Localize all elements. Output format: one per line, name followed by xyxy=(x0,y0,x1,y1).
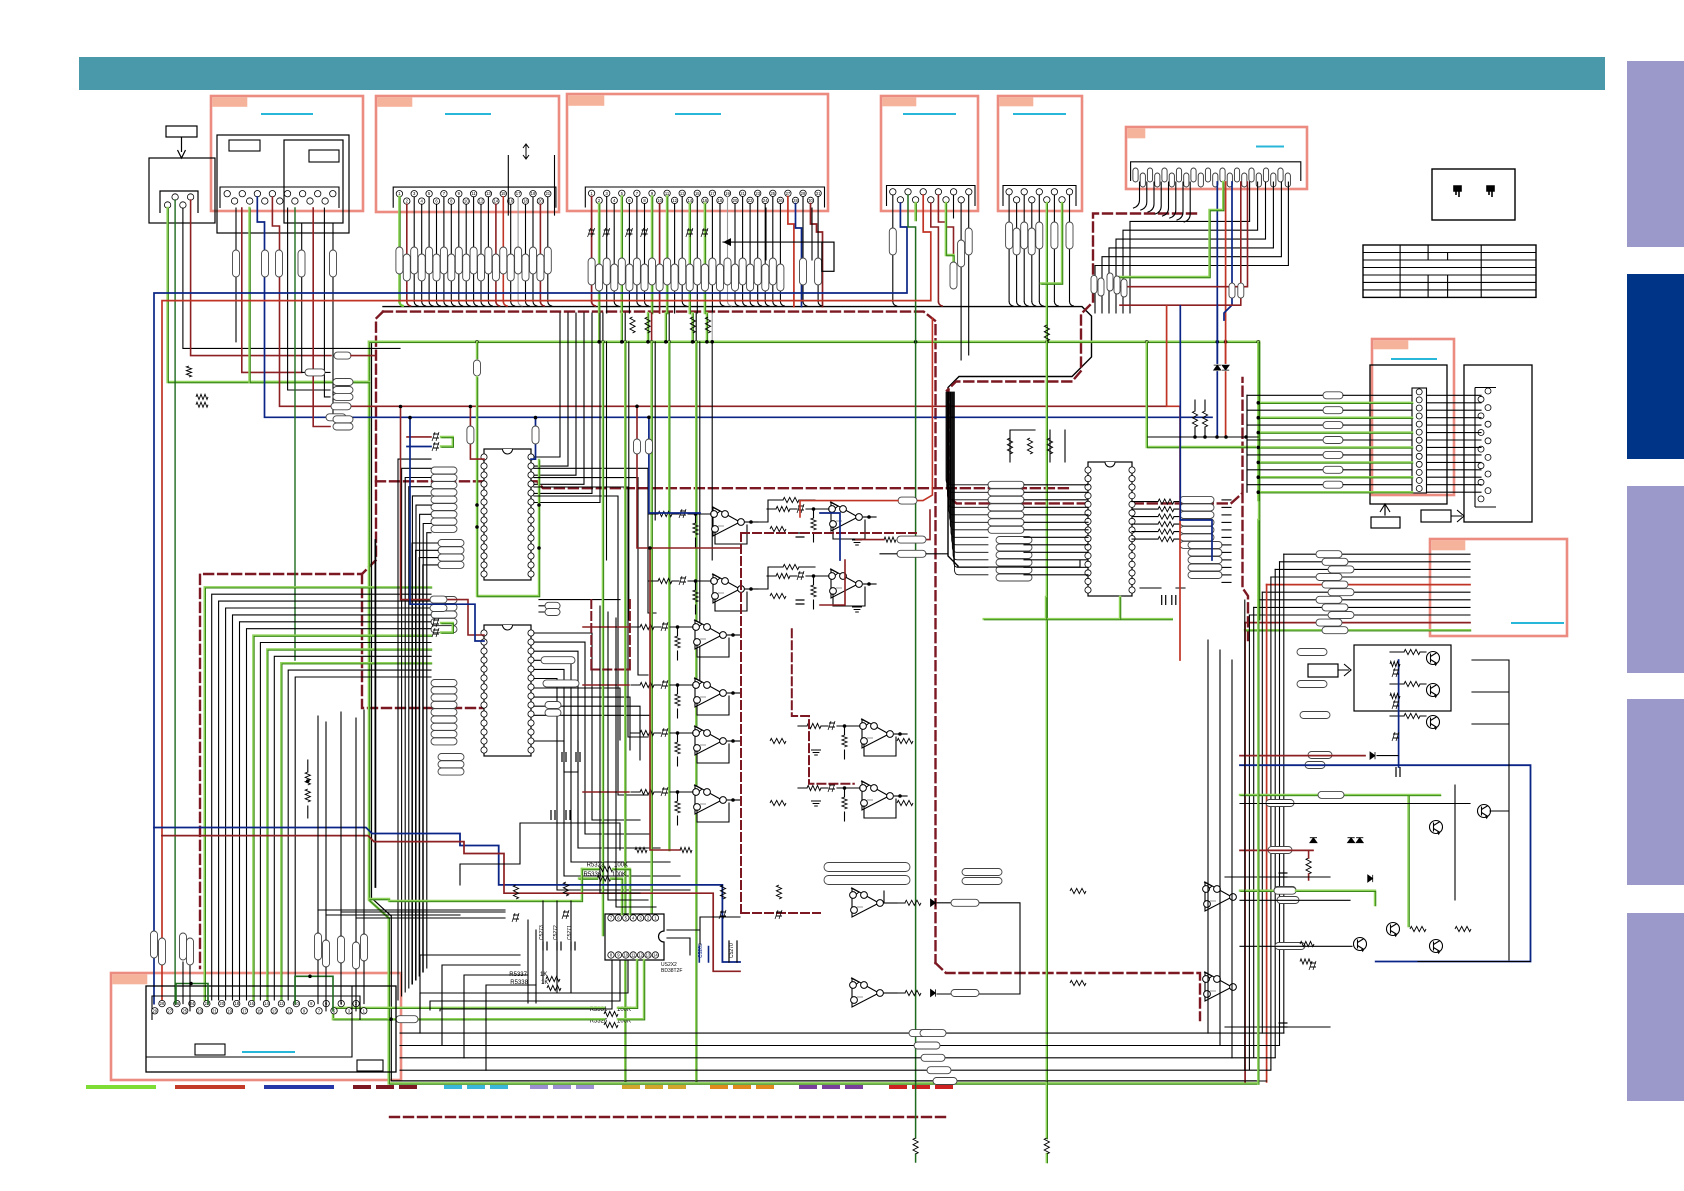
op-amp outputs xyxy=(728,517,908,993)
LCD pin column rect xyxy=(1412,388,1427,493)
svg-text:1K: 1K xyxy=(540,972,547,978)
CN6 bracket xyxy=(1131,162,1301,181)
CN6 pin pills xyxy=(1133,168,1290,187)
crimson row to dashed col xyxy=(856,510,930,543)
CN2 pins xyxy=(396,191,551,205)
svg-text:17: 17 xyxy=(710,191,715,196)
LCD black box xyxy=(1370,365,1447,504)
board entry resistors xyxy=(305,369,353,430)
black row under IC3 xyxy=(957,560,1080,567)
bottom wire resistors2 xyxy=(914,1030,946,1049)
IC5 wires right xyxy=(667,917,740,955)
mid filler verticals xyxy=(600,606,656,907)
inter resistors xyxy=(770,526,913,805)
LCD right box xyxy=(1464,365,1532,522)
svg-text:16: 16 xyxy=(249,1001,254,1006)
CN9 left verticals xyxy=(175,955,190,1011)
updown arrow symbol xyxy=(523,144,529,159)
CN4 pins xyxy=(890,189,972,203)
IC3 right wire stubs xyxy=(1222,500,1231,583)
CN9 left resistors xyxy=(151,931,194,965)
IC5 opamp feed res xyxy=(962,869,1086,986)
LCD gnd symbol xyxy=(1371,504,1400,528)
resistor array RA2 xyxy=(431,597,464,776)
IC decoupling caps xyxy=(534,741,580,772)
wire AC green xyxy=(168,208,370,383)
power connector pins xyxy=(164,194,193,208)
CN6 navy wire3 xyxy=(1224,182,1232,320)
amp navy details xyxy=(1390,660,1400,767)
svg-text:24: 24 xyxy=(763,198,768,203)
board edge green left xyxy=(369,342,1259,1084)
connector box CN7 (display) xyxy=(1372,339,1454,495)
svg-text:17: 17 xyxy=(516,191,521,196)
navy feed opamp xyxy=(645,416,840,561)
navy branch to IC1 xyxy=(531,416,539,459)
resistor array RA1 xyxy=(431,467,464,568)
CN5 green pulldown xyxy=(1044,325,1049,341)
amp zigzags right xyxy=(1300,926,1471,946)
spec table xyxy=(1363,245,1536,297)
svg-text:27: 27 xyxy=(167,1008,172,1013)
CN5 wire bundle xyxy=(1009,195,1074,1163)
connector box CN2 (keys L) xyxy=(376,96,559,212)
svg-text:19: 19 xyxy=(227,1008,232,1013)
op-amp array xyxy=(693,502,894,1007)
CN6 right black staircase xyxy=(1095,182,1288,313)
svg-text:BD38T2F: BD38T2F xyxy=(661,968,682,974)
CN5 bracket xyxy=(1003,186,1076,207)
IC5 fb caps xyxy=(1225,873,1330,1027)
IC3 green under xyxy=(984,597,1173,620)
crimson feed opamp xyxy=(634,405,846,851)
svg-text:31: 31 xyxy=(816,191,821,196)
LCD right bracket xyxy=(1475,388,1496,508)
svg-text:R5323: R5323 xyxy=(587,863,605,869)
svg-text:14: 14 xyxy=(264,1001,269,1006)
crimson branch to IC1 xyxy=(467,405,484,459)
svg-text:15: 15 xyxy=(695,191,700,196)
svg-text:C5273: C5273 xyxy=(539,925,545,940)
IC3 right zigzags xyxy=(1132,499,1180,542)
board edge black left xyxy=(372,342,1257,1081)
CN9 mid verticals xyxy=(318,710,364,1011)
IC5 hookup verticals xyxy=(528,901,571,1003)
amp crimson2 xyxy=(1240,850,1313,880)
CN3 wires into middle xyxy=(603,342,712,1082)
svg-text:13: 13 xyxy=(272,1008,277,1013)
CN9 outer box xyxy=(146,986,396,1072)
opamp interconnect row1 xyxy=(745,497,815,589)
svg-text:10: 10 xyxy=(623,953,628,958)
keybed label 1 xyxy=(229,140,260,151)
CN6 red wire xyxy=(1225,182,1227,363)
CN6 navy wire xyxy=(1216,182,1218,363)
right bus green xyxy=(1257,520,1260,1084)
IC1 right long nets xyxy=(534,468,656,795)
IC2 bottom caps xyxy=(551,810,570,820)
IC1 green U bus xyxy=(474,342,541,597)
CN3 resistor band xyxy=(588,258,822,291)
amp navy bus xyxy=(1240,765,1531,970)
CN6 left wires to shield xyxy=(1134,182,1191,222)
svg-text:23: 23 xyxy=(197,1008,202,1013)
resistor labels xyxy=(509,863,631,1025)
IC5 green wires2 xyxy=(333,960,645,1020)
nav tab 2 (active) xyxy=(1627,274,1684,459)
CN3 wire bundle xyxy=(592,197,823,314)
svg-text:13: 13 xyxy=(680,191,685,196)
diode pair near CN6 xyxy=(1214,305,1230,437)
CN6 wire resistors xyxy=(1229,283,1244,298)
connector box CN4 xyxy=(881,96,978,211)
feeder black bus xyxy=(374,540,376,887)
pedal plug icons xyxy=(1454,186,1494,197)
teal header bar xyxy=(79,57,1605,90)
red vertical right xyxy=(1167,306,1180,660)
CN1 pins xyxy=(224,191,336,205)
series resistor pair left xyxy=(305,760,310,818)
svg-text:14: 14 xyxy=(653,953,658,958)
svg-text:19: 19 xyxy=(531,191,536,196)
connector box CN8 (jacks) xyxy=(1430,539,1567,636)
resistor array RA3 xyxy=(988,481,1032,581)
power unit box xyxy=(149,158,215,223)
CN1 bracket xyxy=(220,187,339,208)
nav tab 5 xyxy=(1627,913,1684,1101)
CN4 bracket xyxy=(887,186,976,207)
power connector bracket xyxy=(160,191,198,213)
board inner notch dashed xyxy=(362,574,530,708)
CN3 pins xyxy=(588,190,821,203)
svg-text:1K: 1K xyxy=(541,980,548,986)
connector box CN3 (keys R) xyxy=(567,94,828,211)
stair to IC5 xyxy=(318,910,505,918)
CN3 tail lines xyxy=(766,208,812,260)
CN9 aux box xyxy=(357,1060,383,1071)
IC5 mid res xyxy=(824,863,910,885)
CN1 wire bundle xyxy=(236,197,1212,660)
svg-text:C5272: C5272 xyxy=(553,925,559,940)
board top green bus xyxy=(369,342,1260,620)
amp diodes xyxy=(1310,838,1373,882)
IC U1 xyxy=(481,449,534,580)
pedal symbol box xyxy=(1432,169,1515,220)
IC3 caps below xyxy=(1140,588,1185,605)
IC1 left rows to bottom connector xyxy=(398,459,438,1000)
left small zigzags xyxy=(186,366,208,407)
svg-text:12: 12 xyxy=(672,198,677,203)
CN1 wire resistors xyxy=(233,250,337,277)
svg-text:25: 25 xyxy=(182,1008,187,1013)
svg-text:13: 13 xyxy=(486,191,491,196)
board outline left dashed xyxy=(200,312,383,968)
amp right rail xyxy=(1472,660,1509,960)
board outline right dashed xyxy=(949,378,1249,640)
left riser staircase bundle xyxy=(205,587,432,1000)
CN3 bracket xyxy=(585,187,824,208)
bottom risers xyxy=(420,955,536,1070)
CN3 passthrough pairs xyxy=(597,313,714,344)
CN2 cable lines xyxy=(508,155,554,216)
CN9 to IC5 rows xyxy=(420,960,628,1011)
IC1-IC2 gap rows xyxy=(539,600,620,616)
svg-text:22: 22 xyxy=(748,198,753,203)
board top green bus dots xyxy=(475,340,1260,344)
LCD right pins xyxy=(1478,388,1491,502)
IC2 right wires xyxy=(534,633,690,890)
coupling caps IC2 xyxy=(432,618,454,637)
svg-text:10: 10 xyxy=(464,199,469,204)
CN2 resistor band xyxy=(396,247,551,281)
svg-text:10: 10 xyxy=(657,198,662,203)
svg-text:20: 20 xyxy=(733,198,738,203)
svg-text:18: 18 xyxy=(234,1001,239,1006)
svg-text:C5271: C5271 xyxy=(567,925,573,940)
IC U2 xyxy=(481,625,534,756)
svg-text:21: 21 xyxy=(740,191,745,196)
wire AC crimson xyxy=(191,200,331,356)
CN2 wire bundle xyxy=(399,197,552,306)
svg-text:26: 26 xyxy=(778,198,783,203)
svg-text:12: 12 xyxy=(479,199,484,204)
IC3 left wires xyxy=(946,392,1088,575)
navy vertical right xyxy=(1180,306,1212,560)
svg-text:18: 18 xyxy=(718,198,723,203)
keybed label 2 xyxy=(309,150,339,162)
connector box CN5 xyxy=(998,96,1082,211)
svg-text:14: 14 xyxy=(687,198,692,203)
CN5 pins xyxy=(1006,189,1073,203)
svg-text:15: 15 xyxy=(257,1008,262,1013)
keybed inner box xyxy=(284,140,343,223)
wire AC crimson2 xyxy=(351,355,376,357)
res pair under diodes xyxy=(1192,400,1207,437)
IC5 green wires xyxy=(389,869,631,915)
svg-text:28: 28 xyxy=(793,198,798,203)
IC5 caps navy xyxy=(698,943,709,962)
CN6 small res group xyxy=(1091,273,1127,297)
svg-text:11: 11 xyxy=(471,191,476,196)
crimson rows to opamps xyxy=(583,627,629,792)
svg-text:11: 11 xyxy=(665,191,670,196)
right bus verticals xyxy=(1208,600,1245,1070)
bottom long wires xyxy=(400,1030,1284,1085)
CN9 green jumpers xyxy=(176,975,333,1011)
svg-text:22: 22 xyxy=(204,1001,209,1006)
nav tab 4 xyxy=(1627,699,1684,885)
opamp caps row1 xyxy=(796,533,805,604)
gnd marks xyxy=(811,540,862,806)
CN5 resistor band xyxy=(1006,222,1073,255)
svg-text:11: 11 xyxy=(287,1008,292,1013)
LCD to right box rows xyxy=(1427,395,1482,492)
CN9 bracket xyxy=(152,996,360,1020)
LCD wire rows xyxy=(1247,392,1413,494)
board outline top dashed xyxy=(383,312,936,963)
amp green row2 xyxy=(1240,887,1376,906)
svg-text:100K: 100K xyxy=(612,872,626,878)
CN6 crimson wire xyxy=(1120,182,1241,305)
amp black rows xyxy=(1240,785,1530,962)
IC5 caps under xyxy=(543,942,575,951)
CN8 wire rows xyxy=(1245,551,1471,634)
amp crimson wire xyxy=(1240,752,1398,759)
IC U3 xyxy=(1085,462,1135,596)
svg-text:19: 19 xyxy=(725,191,730,196)
connector box CN6 (ribbon) xyxy=(1126,127,1307,189)
amp gnd cap xyxy=(1396,767,1400,777)
amp box xyxy=(1354,645,1451,711)
svg-text:17: 17 xyxy=(242,1008,247,1013)
CN6 crimson wire2 xyxy=(1120,182,1248,287)
svg-text:28: 28 xyxy=(160,1001,165,1006)
svg-text:12: 12 xyxy=(279,1001,284,1006)
arrow wire to jack box xyxy=(723,238,822,246)
CN8 staircase verticals xyxy=(1245,554,1284,1082)
svg-text:20: 20 xyxy=(538,199,543,204)
crimson left drop xyxy=(399,405,484,635)
R zigzags near labels xyxy=(546,866,618,1027)
CN3 pullups below xyxy=(630,317,711,333)
CN4 wire bundle xyxy=(154,195,969,1162)
svg-text:16: 16 xyxy=(508,199,513,204)
IC5 crimson bus xyxy=(162,836,740,972)
amp feed resistors xyxy=(1266,649,1332,950)
svg-text:23: 23 xyxy=(755,191,760,196)
svg-text:21: 21 xyxy=(212,1008,217,1013)
amp green res xyxy=(1318,791,1344,798)
IC5 top zig xyxy=(512,882,782,922)
CN4 resistors xyxy=(889,228,972,289)
svg-text:25: 25 xyxy=(770,191,775,196)
black row 553 xyxy=(880,550,948,557)
IC U5 body xyxy=(605,914,664,960)
svg-text:16: 16 xyxy=(703,198,708,203)
amp arrow box xyxy=(1308,664,1351,677)
nav tab 3 xyxy=(1627,486,1684,673)
amp internals xyxy=(1390,649,1426,718)
coupling caps IC1 xyxy=(407,432,454,451)
LCD black feeder xyxy=(1246,395,1248,492)
svg-text:C5269: C5269 xyxy=(698,943,704,958)
connector box CN9 (bottom panel) xyxy=(111,973,401,1080)
svg-text:C5270: C5270 xyxy=(729,943,735,958)
resistor on AC crimson xyxy=(334,352,351,359)
navy left drop xyxy=(408,416,484,641)
IC5 long black xyxy=(460,823,692,885)
connector box CN1 (panel L) xyxy=(211,96,363,211)
CN2 bracket xyxy=(393,187,556,208)
LCD pin circles xyxy=(1416,389,1422,492)
IC3 top wires xyxy=(1007,430,1065,462)
IC U5 label xyxy=(661,962,682,974)
CN9 mid resistors xyxy=(315,933,368,969)
IC5 opamp net xyxy=(884,891,1020,994)
CN9 gnd label box xyxy=(195,1044,225,1055)
svg-text:14: 14 xyxy=(494,199,499,204)
output transistors xyxy=(1354,652,1491,955)
board outline bottom dashed xyxy=(390,1116,950,1118)
svg-text:21: 21 xyxy=(545,191,550,196)
IC1 right wires up xyxy=(534,313,600,503)
board outline notch dashed xyxy=(947,214,1196,391)
CN3 input caps xyxy=(588,228,708,237)
keybed outer box xyxy=(217,135,349,233)
dashed weave around opamps xyxy=(591,533,916,913)
wire colour legend xyxy=(88,1085,956,1089)
IC5 right res diode xyxy=(905,899,979,996)
svg-text:13: 13 xyxy=(646,953,651,958)
opamp pair right mid xyxy=(1203,882,1237,1001)
op-amp input networks xyxy=(631,504,907,825)
IC5 green left xyxy=(333,1016,418,1023)
LCD arrow box xyxy=(1421,510,1464,522)
svg-text:15: 15 xyxy=(501,191,506,196)
CN4 red drop along dashed xyxy=(800,318,932,517)
svg-text:29: 29 xyxy=(801,191,806,196)
svg-text:18: 18 xyxy=(523,199,528,204)
svg-text:12: 12 xyxy=(638,953,643,958)
nav tab 1 xyxy=(1627,61,1684,247)
svg-text:30: 30 xyxy=(808,198,813,203)
wire AC black xyxy=(183,208,400,348)
CN9 pins xyxy=(152,1000,367,1014)
amp green bus xyxy=(1240,795,1441,927)
jack component box xyxy=(822,242,834,271)
cap labels xyxy=(539,925,573,940)
C5270 caps xyxy=(729,941,737,962)
power inlet label xyxy=(166,126,197,137)
board dashed through IC1 xyxy=(376,481,1070,488)
svg-text:29: 29 xyxy=(152,1008,157,1013)
svg-text:11: 11 xyxy=(631,953,636,958)
svg-text:27: 27 xyxy=(786,191,791,196)
junction row y437 xyxy=(1148,435,1258,439)
IC2 right pills xyxy=(541,657,579,717)
green bus right verticals xyxy=(1147,342,1259,501)
board dashed bottom corner xyxy=(936,963,1201,1020)
board edge top (black) xyxy=(383,307,1092,566)
arrow to power unit xyxy=(178,137,186,158)
wire AC darkgreen xyxy=(174,200,176,988)
CN6 green wire xyxy=(1120,182,1224,278)
IC5 navy bus xyxy=(154,828,740,963)
svg-text:20: 20 xyxy=(219,1001,224,1006)
feeder green mid xyxy=(369,898,390,901)
IC U5 pins xyxy=(608,915,659,959)
CN9 inner box line xyxy=(146,986,352,1057)
resistor array RA4 xyxy=(1180,496,1222,578)
